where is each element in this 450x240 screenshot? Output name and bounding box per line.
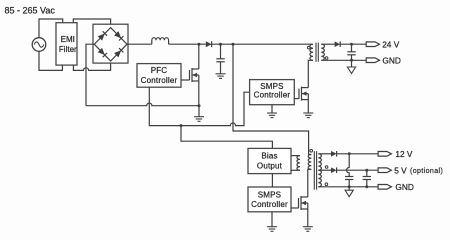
wire GND rail to ground symbol: [351, 60, 353, 67]
output diode D6: [335, 41, 341, 47]
output diode D8 (5V): [331, 167, 337, 173]
junction rail / PFC drain: [198, 43, 201, 46]
svg-text:Controller: Controller: [141, 76, 178, 85]
junction GND rail / C4: [365, 185, 368, 188]
junction 24V rail / output cap: [350, 43, 353, 46]
wire PFC gate: [181, 79, 190, 81]
bridge rectifier BR1 diamond: [94, 28, 127, 61]
bridge diode D2 (top-right edge): [114, 31, 123, 40]
svg-text:(optional): (optional): [410, 168, 443, 175]
wire SMPS1 gate: [294, 98, 299, 100]
wire Bias Output to SMPS ctrl U3: [271, 174, 273, 187]
wire SMPS1 ctrl ground stub: [271, 105, 273, 113]
svg-text:5 V: 5 V: [394, 165, 407, 175]
wire AC bottom to EMI filter input: [39, 51, 62, 70]
ground at Q3 source: [303, 227, 313, 232]
svg-text:24 V: 24 V: [382, 39, 400, 49]
connector 5 V output: [378, 165, 443, 175]
ground below bulk capacitor: [216, 74, 226, 79]
wire T2 secondary top to 12V diode: [318, 153, 332, 155]
wire return node to ground: [198, 106, 200, 117]
wire 24V cap bottom to GND rail: [351, 55, 353, 60]
signal ground below bottom GND rail: [345, 190, 353, 197]
wire Q3 drain to T2 primary bottom: [308, 169, 312, 197]
EMI filter block: [56, 23, 77, 65]
wire SMPS ctrl U3 ground stub: [271, 212, 273, 227]
wire Q2 drain to T1 primary bottom: [308, 60, 313, 87]
transformer T1 core: [316, 43, 318, 62]
output capacitor C2: [347, 52, 355, 55]
transformer T2 core: [314, 151, 316, 189]
transformer T1 secondary winding: [321, 44, 324, 60]
output diode D7 (12V): [331, 151, 337, 157]
PFC MOSFET Q1: [190, 68, 199, 82]
svg-text:Output: Output: [257, 161, 283, 170]
PFC controller block: [137, 64, 181, 88]
transformer T2 primary winding: [308, 155, 311, 170]
wire Q2 source to ground: [307, 100, 309, 113]
wire GND rail to ground symbol (bottom): [348, 187, 350, 190]
output capacitor C3 (12V): [345, 177, 353, 180]
ground below SMPS controller U2: [267, 113, 277, 118]
wire Q3 source to ground: [307, 209, 309, 227]
wire 24V rail: [340, 43, 366, 45]
wire C4 bottom to GND rail: [366, 180, 368, 187]
ground below SMPS controller U3: [267, 227, 277, 232]
wire Bias winding bottom stub: [291, 169, 300, 171]
wire PFC ctrl bottom to SMPS1 supply (hop over feed drop): [149, 87, 249, 125]
wire SMPS2 gate: [291, 207, 299, 209]
wire 24V cap top: [351, 44, 353, 52]
wire T2 center tap to 5V diode: [318, 169, 332, 171]
junction GND rail / cap: [350, 59, 353, 62]
signal ground below 24V GND rail: [347, 67, 355, 74]
wire T2 secondary bottom GND rail: [318, 186, 378, 188]
wire 5V rail: [337, 169, 379, 171]
wire rail drop to second stage rail and T2 primary: [233, 44, 311, 154]
connector 12 V output: [378, 149, 413, 159]
wire rail inductor to boost diode: [169, 43, 206, 45]
transformer T2 secondary winding 5V: [318, 170, 321, 187]
T1 primary phase dot: [307, 46, 310, 49]
svg-text:12 V: 12 V: [395, 149, 413, 159]
svg-text:85 - 265 Vac: 85 - 265 Vac: [5, 6, 56, 16]
svg-text:Controller: Controller: [251, 200, 288, 209]
wire bridge positive to inductor: [127, 43, 152, 45]
inductor L1: [152, 38, 169, 45]
SMPS controller U3 block: [248, 187, 291, 212]
junction SMPS feed line / bias branch: [180, 124, 183, 127]
svg-text:GND: GND: [395, 182, 413, 192]
wire 12V cap drop (hop over 5V rail): [347, 154, 350, 177]
wire 12V rail: [337, 153, 379, 155]
junction rail / bulk cap: [219, 43, 222, 46]
wire bridge negative (node B) down to return rail: [86, 44, 94, 105]
wire rail to bulk cap: [220, 44, 222, 59]
Bias Output block: [248, 148, 291, 173]
AC source V1: [32, 38, 46, 52]
ground at PFC source: [194, 117, 204, 122]
svg-text:EMI: EMI: [61, 35, 75, 44]
wire T1 secondary bottom GND rail: [321, 59, 366, 61]
output capacitor C4 (5V): [363, 177, 371, 180]
wire Bias winding top stub: [291, 155, 300, 157]
transformer T2 secondary winding 12V: [318, 154, 321, 170]
connector 24 V output: [366, 39, 400, 49]
wire branch to Bias Output feed: [181, 126, 272, 149]
T2 primary phase dot: [310, 149, 313, 152]
junction 5V rail / cap: [365, 169, 368, 172]
connector GND output (bottom section): [378, 182, 414, 192]
junction PFC source / return rail: [198, 104, 201, 107]
junction 12V rail / cap: [348, 152, 351, 155]
bridge diode D4 (bottom-right edge): [114, 48, 123, 57]
ground at Q2 source: [303, 113, 313, 118]
junction rail / bottom section feed: [232, 43, 235, 46]
junction GND rail / C3: [348, 185, 351, 188]
svg-text:SMPS: SMPS: [258, 190, 281, 199]
SMPS MOSFET Q2: [299, 87, 308, 101]
T2 secondary 12V phase dot: [325, 166, 328, 169]
bridge diode D1 (left-top edge): [98, 31, 107, 40]
wire C3 bottom to GND rail: [348, 180, 350, 187]
svg-text:Controller: Controller: [254, 90, 291, 99]
wire EMI output bottom to bridge (hop over node B drop): [73, 61, 110, 70]
SMPS controller U2 block: [250, 80, 295, 105]
wire T1 secondary top to output diode: [321, 43, 334, 45]
svg-text:Filter: Filter: [59, 45, 77, 54]
svg-text:PFC: PFC: [151, 66, 168, 75]
SMPS MOSFET Q3: [299, 196, 308, 210]
wire rail diode to transformer T1 primary: [212, 43, 313, 45]
T2 secondary 5V phase dot: [325, 183, 328, 186]
svg-text:Bias: Bias: [261, 151, 277, 160]
svg-text:GND: GND: [382, 55, 400, 65]
bridge rectifier BR1 outer box: [93, 24, 128, 63]
transformer T2 bias winding: [297, 156, 300, 171]
bridge diode D3 (left-bottom edge): [98, 48, 107, 57]
wire EMI output top to bridge: [73, 19, 110, 28]
connector GND output (24V section): [366, 55, 401, 65]
bulk capacitor C1: [216, 59, 224, 62]
wire AC top to EMI filter input: [39, 19, 63, 38]
T1 secondary phase dot: [325, 57, 328, 60]
transformer T1 primary winding: [310, 44, 313, 60]
wire bulk cap to ground: [220, 62, 222, 74]
wire return rail to PFC source node (hop over PFC ctrl stub): [86, 103, 199, 106]
wire PFC drain to rail: [198, 44, 200, 69]
wire PFC source to return node: [198, 81, 200, 106]
boost diode D5: [206, 41, 212, 47]
wire 5V cap drop: [366, 170, 368, 176]
